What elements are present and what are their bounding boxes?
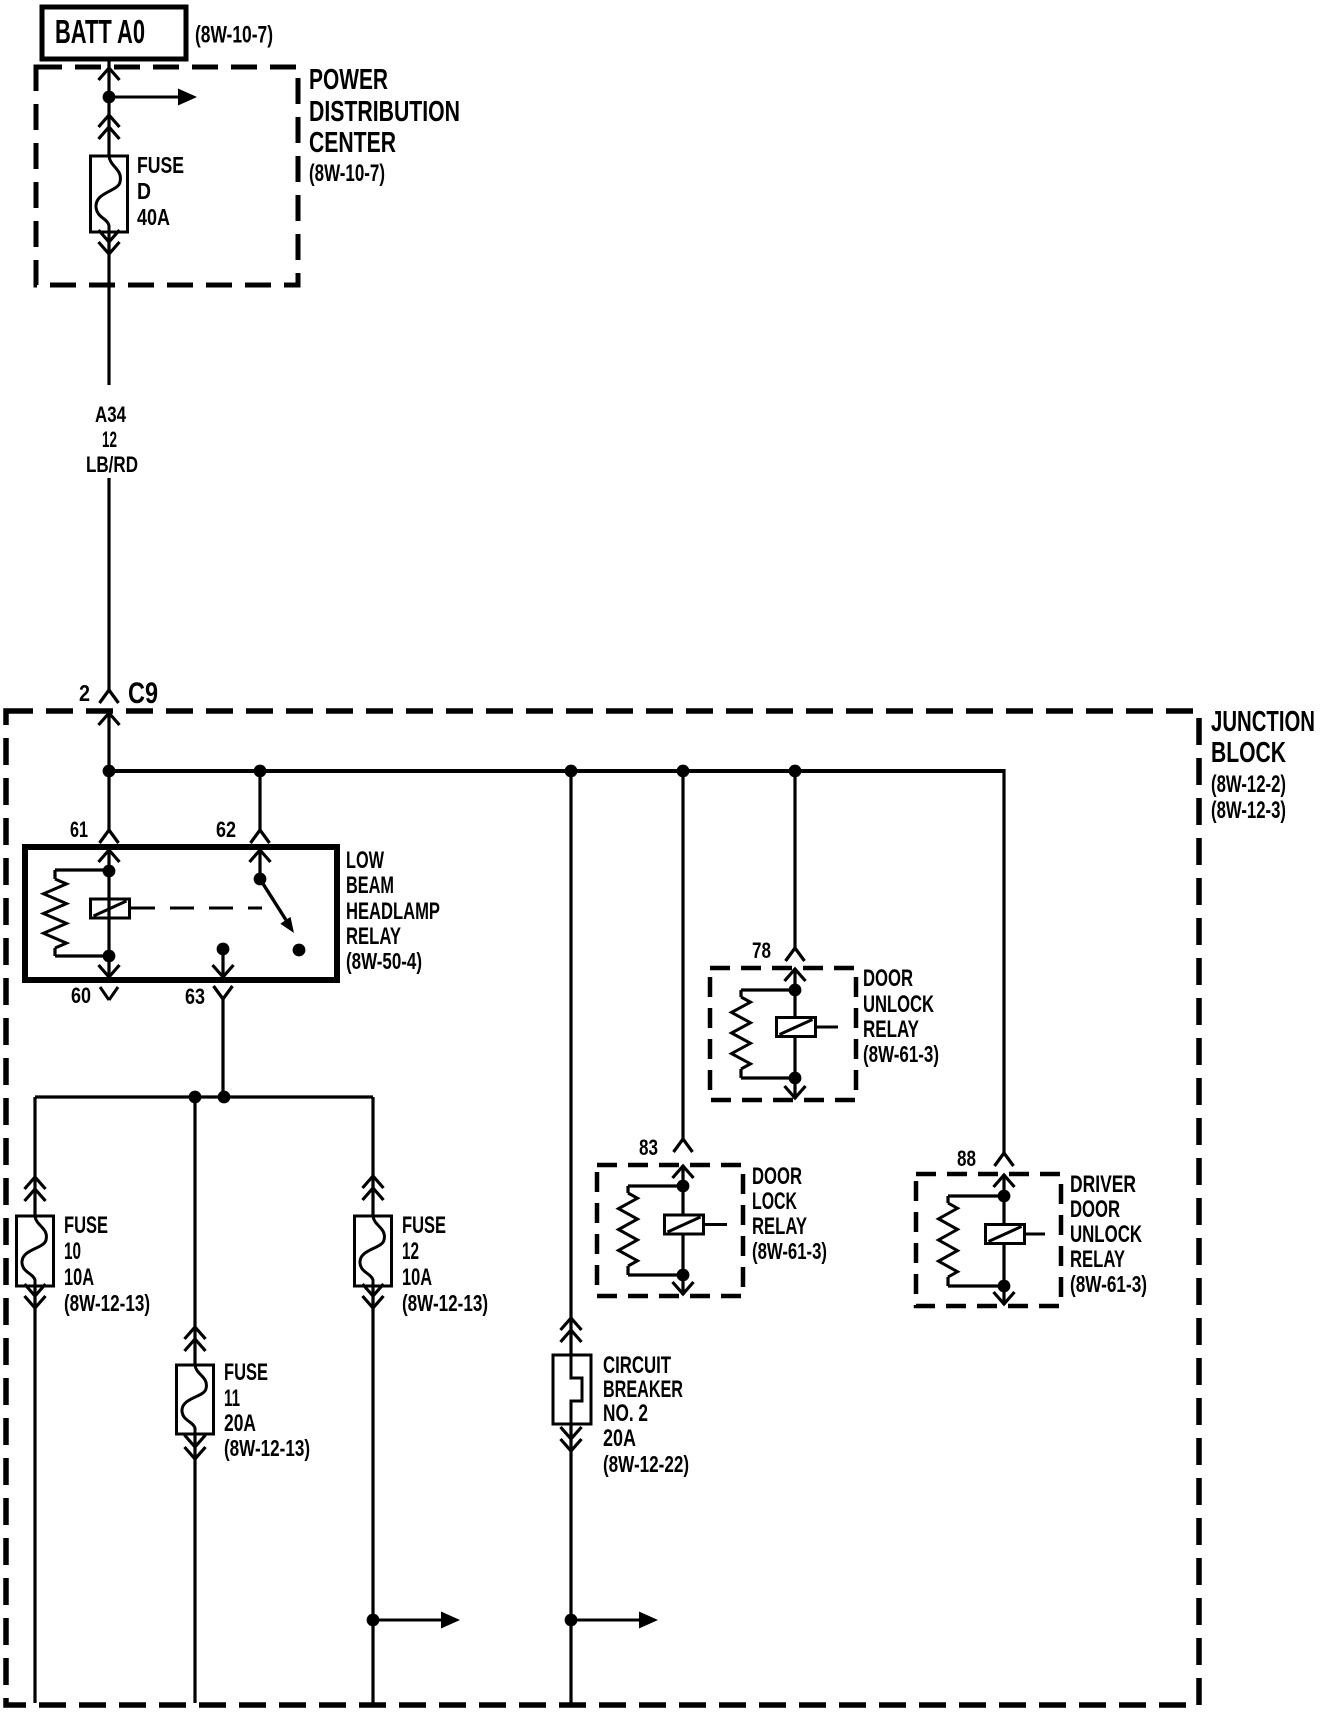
wire bus to door unlock relay xyxy=(793,771,796,948)
wire bus to circuit breaker xyxy=(569,771,572,1355)
svg-text:LB/RD: LB/RD xyxy=(86,452,138,477)
wire battery feed into PDC xyxy=(107,59,110,97)
wire bus feed xyxy=(109,769,1004,773)
svg-text:CIRCUIT: CIRCUIT xyxy=(603,1352,671,1379)
svg-text:RELAY: RELAY xyxy=(752,1213,807,1240)
node bus dot door lock relay branch xyxy=(677,765,690,778)
wire door unlock to bottom pin xyxy=(793,1078,796,1099)
relay box low beam headlamp relay xyxy=(25,847,337,980)
svg-text:C9: C9 xyxy=(128,677,158,710)
connector male arrow pin 83 inside xyxy=(673,1166,694,1178)
svg-text:(8W-12-13): (8W-12-13) xyxy=(402,1290,488,1316)
wire door lock coil vertical xyxy=(681,1186,684,1275)
node relay coil top dot xyxy=(103,865,116,878)
wire bus to relay pin 62 xyxy=(258,771,261,830)
wire below circuit breaker xyxy=(569,1424,572,1703)
resistor door lock relay bottom lead xyxy=(628,1266,683,1275)
svg-text:BATT A0: BATT A0 xyxy=(55,13,145,50)
svg-text:63: 63 xyxy=(185,984,205,1009)
connector male arrow door unlock bottom pin xyxy=(785,1086,806,1098)
wire pin 61 to coil xyxy=(107,849,110,871)
connector double chevron below fuse 11 xyxy=(185,1435,206,1459)
label LOW BEAM HEADLAMP RELAY xyxy=(346,847,440,974)
resistor door lock relay top lead xyxy=(628,1186,683,1193)
wire below fuse 10 xyxy=(33,1286,36,1703)
svg-text:RELAY: RELAY xyxy=(346,923,401,950)
svg-text:DISTRIBUTION: DISTRIBUTION xyxy=(309,96,460,128)
connector double chevron above fuse 11 xyxy=(185,1327,206,1351)
connector female pin 63 below relay xyxy=(214,986,233,1097)
connector male arrow pin 88 inside xyxy=(994,1175,1015,1187)
svg-text:10: 10 xyxy=(64,1238,81,1265)
label DRIVER DOOR UNLOCK RELAY xyxy=(1070,1171,1147,1297)
wire driver door unlock to bottom pin xyxy=(1002,1286,1005,1305)
node dot circuit breaker output branch xyxy=(565,1614,578,1627)
svg-text:A34: A34 xyxy=(95,402,127,427)
svg-text:NO. 2: NO. 2 xyxy=(603,1400,648,1427)
wire arrow feed to other circuits xyxy=(109,89,197,106)
svg-text:BEAM: BEAM xyxy=(346,872,394,899)
connector male arrow at PDC entry xyxy=(99,68,120,80)
label pin 78 xyxy=(752,938,771,963)
svg-text:12: 12 xyxy=(402,1238,419,1265)
relay coil K1 xyxy=(91,899,130,918)
label pin 2 xyxy=(79,680,90,706)
connector double chevron below circuit breaker xyxy=(561,1427,582,1451)
wire to fuse 10 xyxy=(33,1097,36,1216)
door lock relay coil xyxy=(665,1215,704,1234)
connector double chevron above fuse 10 xyxy=(25,1177,46,1201)
svg-text:78: 78 xyxy=(752,938,771,963)
svg-text:LOCK: LOCK xyxy=(752,1188,797,1215)
svg-text:DOOR: DOOR xyxy=(752,1163,802,1190)
svg-text:(8W-61-3): (8W-61-3) xyxy=(1070,1271,1147,1297)
wire arrow circuit breaker output xyxy=(571,1612,658,1629)
wire door unlock coil vertical xyxy=(793,990,796,1078)
fuse 12 10A xyxy=(355,1212,489,1316)
wire door unlock coil control lead xyxy=(816,1026,839,1029)
node switch pivot dot xyxy=(254,873,267,886)
wire door lock coil control lead xyxy=(704,1223,728,1226)
resistor door unlock relay top lead xyxy=(741,990,795,997)
wire driver door unlock coil vertical xyxy=(1002,1196,1005,1286)
svg-text:FUSE: FUSE xyxy=(64,1212,108,1239)
node bus dot pin62 branch xyxy=(254,765,267,778)
node bus dot pin61 branch xyxy=(103,765,116,778)
svg-text:DRIVER: DRIVER xyxy=(1070,1171,1136,1198)
svg-text:JUNCTION: JUNCTION xyxy=(1211,706,1315,738)
resistor relay shunt bottom lead xyxy=(55,948,109,956)
svg-text:(8W-12-13): (8W-12-13) xyxy=(64,1290,150,1316)
node junction dot fuse 11 branch xyxy=(189,1091,202,1104)
svg-text:(8W-12-2): (8W-12-2) xyxy=(1211,771,1286,798)
svg-text:LOW: LOW xyxy=(346,847,384,874)
svg-text:20A: 20A xyxy=(603,1425,636,1452)
connector male arrow door lock bottom pin xyxy=(673,1282,694,1294)
label wire A34 12 LB/RD xyxy=(86,402,138,477)
node door unlock relay bottom dot xyxy=(789,1072,802,1085)
node driver door unlock relay top dot xyxy=(998,1190,1011,1203)
svg-text:12: 12 xyxy=(102,427,117,452)
svg-text:20A: 20A xyxy=(224,1410,256,1437)
label JUNCTION BLOCK xyxy=(1211,706,1315,824)
resistor driver door unlock relay bottom lead xyxy=(948,1277,1004,1286)
node junction dot pin 63 feed xyxy=(218,1091,231,1104)
wire bus to door lock relay xyxy=(681,771,684,1139)
door unlock relay coil xyxy=(777,1018,816,1037)
label pin 62 xyxy=(216,817,236,842)
node door lock relay bottom dot xyxy=(677,1269,690,1282)
connector double chevron above fuse 12 xyxy=(363,1176,384,1200)
connector double chevron above fuse D xyxy=(99,115,120,139)
wire A34 to junction block xyxy=(107,478,110,690)
svg-text:2: 2 xyxy=(79,680,90,706)
svg-text:BLOCK: BLOCK xyxy=(1211,737,1286,769)
svg-text:(8W-61-3): (8W-61-3) xyxy=(752,1238,827,1264)
label (8W-10-7) for BATT A0 xyxy=(195,22,273,49)
resistor door lock relay xyxy=(619,1193,638,1266)
door lock relay dashed box xyxy=(597,1165,743,1296)
resistor door unlock relay bottom lead xyxy=(741,1069,795,1078)
resistor relay shunt top lead xyxy=(55,870,109,879)
wire dashed relay control link xyxy=(131,907,262,910)
connector double chevron below fuse D xyxy=(99,230,120,254)
node switch contact dot xyxy=(293,944,306,957)
svg-text:UNLOCK: UNLOCK xyxy=(863,991,934,1018)
svg-text:(8W-10-7): (8W-10-7) xyxy=(195,22,273,49)
wire below fuse 12 xyxy=(371,1286,374,1703)
svg-text:(8W-61-3): (8W-61-3) xyxy=(863,1041,939,1067)
wire pin 62 to switch xyxy=(258,849,261,879)
svg-text:FUSE: FUSE xyxy=(137,152,184,178)
node door lock relay top dot xyxy=(677,1180,690,1193)
svg-text:(8W-12-22): (8W-12-22) xyxy=(603,1451,689,1477)
svg-text:61: 61 xyxy=(70,817,88,842)
wire below fuse 11 xyxy=(193,1434,196,1703)
connector female pin 62 xyxy=(251,830,270,843)
node driver door unlock relay bottom dot xyxy=(998,1280,1011,1293)
driver door unlock relay coil xyxy=(986,1225,1025,1244)
wire driver door unlock coil control lead xyxy=(1025,1233,1046,1236)
wire C9 to bus xyxy=(107,712,110,771)
node relay coil bottom dot xyxy=(103,950,116,963)
connector female pin 83 xyxy=(674,1139,693,1152)
fuse D 40A xyxy=(91,152,185,232)
svg-text:60: 60 xyxy=(71,983,91,1008)
connector male arrow pin 60 xyxy=(99,965,120,977)
svg-text:(8W-12-13): (8W-12-13) xyxy=(224,1435,310,1461)
wire arrow fuse 12 output xyxy=(373,1612,460,1629)
connector male arrow pin 78 inside xyxy=(785,969,806,981)
label DOOR UNLOCK RELAY xyxy=(863,965,939,1067)
connector double chevron below fuse 10 xyxy=(25,1284,46,1308)
label pin 83 xyxy=(639,1135,658,1160)
wire pin 83 to coil xyxy=(681,1165,684,1186)
svg-text:DOOR: DOOR xyxy=(863,965,913,992)
fuse 11 20A xyxy=(177,1359,311,1461)
label pin 88 xyxy=(957,1146,976,1171)
connector female pin 88 xyxy=(995,1153,1014,1166)
label pin 63 xyxy=(185,984,205,1009)
node door unlock relay top dot xyxy=(789,984,802,997)
wire pin 78 to coil xyxy=(793,968,796,990)
wire bus to relay pin 61 xyxy=(107,771,110,830)
node pin 63 dot xyxy=(217,943,230,956)
node bus dot door unlock relay branch xyxy=(789,765,802,778)
svg-text:HEADLAMP: HEADLAMP xyxy=(346,898,440,925)
svg-text:(8W-50-4): (8W-50-4) xyxy=(346,948,422,974)
node BATT A0 feed box xyxy=(42,7,186,59)
svg-text:RELAY: RELAY xyxy=(1070,1246,1125,1273)
svg-text:62: 62 xyxy=(216,817,236,842)
circuit breaker no 2 box xyxy=(553,1352,689,1477)
resistor driver door unlock relay xyxy=(939,1203,958,1277)
wire battery feed to fuse D xyxy=(107,97,110,156)
connector male arrow pin 61 inside relay xyxy=(99,850,120,862)
power distribution center dashed box xyxy=(36,67,298,285)
connector C9 female pin 2 xyxy=(100,690,119,703)
junction block dashed box xyxy=(6,711,1199,1705)
connector double chevron above circuit breaker xyxy=(561,1318,582,1342)
wire bus to driver door unlock relay xyxy=(1002,769,1005,1153)
svg-text:BREAKER: BREAKER xyxy=(603,1376,683,1403)
wire door lock to bottom pin xyxy=(681,1275,684,1295)
wire to fuse 11 xyxy=(193,1097,196,1365)
node junction dot in PDC xyxy=(103,91,116,104)
connector male arrow pin 63 xyxy=(213,965,234,977)
wire pin 88 to coil xyxy=(1002,1174,1005,1196)
svg-text:D: D xyxy=(137,178,151,204)
svg-text:10A: 10A xyxy=(64,1264,94,1291)
svg-text:40A: 40A xyxy=(137,204,170,230)
fuse 10 10A xyxy=(17,1212,151,1316)
resistor door unlock relay xyxy=(732,997,751,1069)
svg-text:UNLOCK: UNLOCK xyxy=(1070,1221,1142,1248)
connector male arrow into junction block xyxy=(99,713,120,725)
connector male arrow pin 62 inside relay xyxy=(250,850,271,862)
svg-text:83: 83 xyxy=(639,1135,658,1160)
connector female pin 78 xyxy=(786,948,805,961)
label POWER DISTRIBUTION CENTER xyxy=(309,64,460,187)
wire coil vertical xyxy=(107,871,110,956)
connector female pin 60 below relay xyxy=(100,987,118,1000)
wire fuse feed junction line xyxy=(35,1095,373,1098)
svg-text:POWER: POWER xyxy=(309,64,388,96)
svg-text:FUSE: FUSE xyxy=(402,1212,446,1239)
wire pin 63 inside relay xyxy=(221,949,224,978)
node bus dot circuit breaker branch xyxy=(565,765,578,778)
connector male arrow driver door unlock bottom pin xyxy=(994,1292,1015,1304)
door unlock relay dashed box xyxy=(710,968,856,1100)
label pin 61 xyxy=(70,817,88,842)
wire coil to pin 60 xyxy=(107,956,110,978)
svg-text:(8W-12-3): (8W-12-3) xyxy=(1211,797,1286,824)
svg-text:DOOR: DOOR xyxy=(1070,1196,1120,1223)
label DOOR LOCK RELAY xyxy=(752,1163,827,1264)
connector female pin 61 xyxy=(100,830,119,843)
resistor relay shunt xyxy=(44,879,67,948)
resistor driver door unlock relay top lead xyxy=(948,1196,1004,1203)
svg-text:11: 11 xyxy=(224,1385,240,1412)
label connector C9 xyxy=(128,677,158,710)
svg-text:FUSE: FUSE xyxy=(224,1359,268,1386)
label pin 60 xyxy=(71,983,91,1008)
svg-text:88: 88 xyxy=(957,1146,976,1171)
svg-text:RELAY: RELAY xyxy=(863,1016,919,1043)
driver door unlock relay dashed box xyxy=(916,1174,1061,1306)
node dot fuse 12 output branch xyxy=(367,1614,380,1627)
svg-text:10A: 10A xyxy=(402,1264,432,1291)
svg-text:(8W-10-7): (8W-10-7) xyxy=(309,160,385,187)
switch arm with arrowhead xyxy=(260,879,294,933)
svg-text:CENTER: CENTER xyxy=(309,127,396,159)
connector double chevron below fuse 12 xyxy=(363,1284,384,1308)
wire to fuse 12 xyxy=(371,1097,374,1216)
wire below fuse D xyxy=(107,232,110,385)
